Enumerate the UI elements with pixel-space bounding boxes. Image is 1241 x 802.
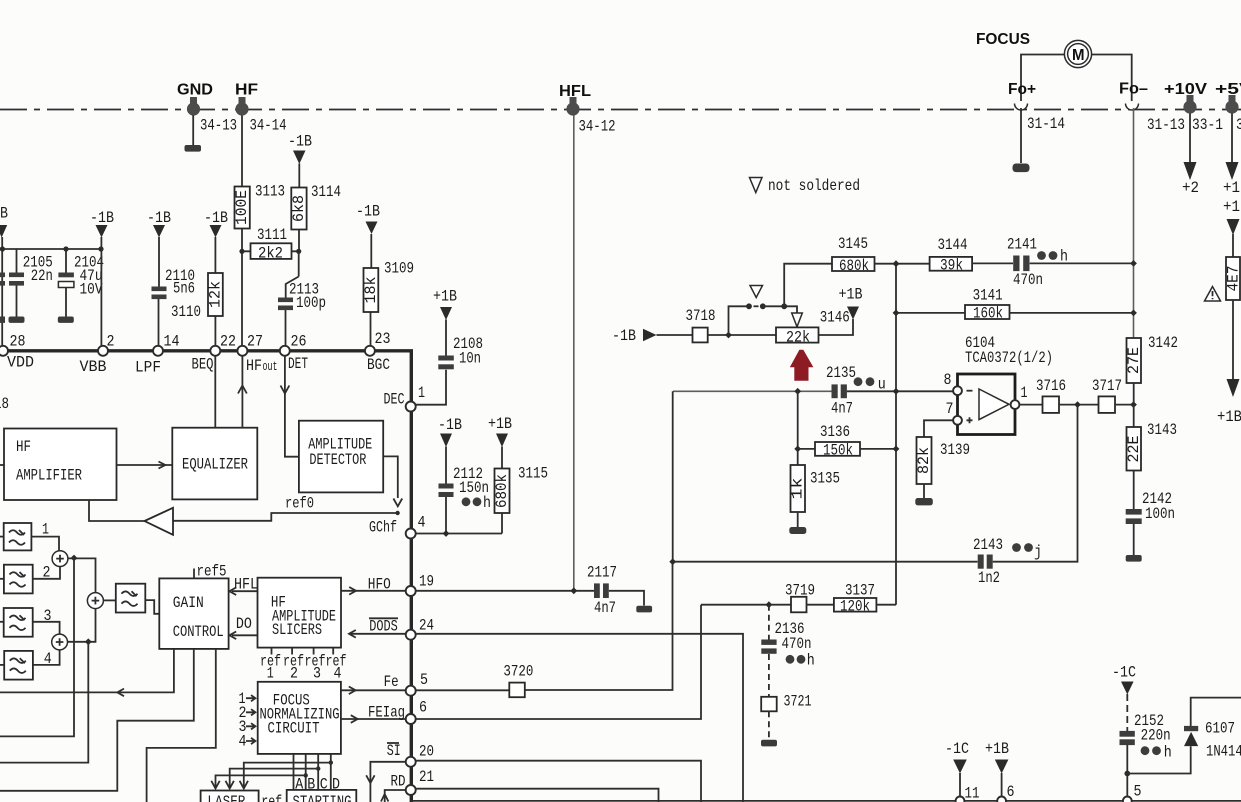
svg-text:-1B: -1B xyxy=(288,133,312,151)
wire filter4 to sum2 xyxy=(33,650,60,665)
svg-text:ref0: ref0 xyxy=(285,495,314,513)
wire HFL slicers to gain control with left arrow xyxy=(229,576,258,596)
wire filter3 to sum2 xyxy=(33,622,60,634)
wire sum1 tap staircase xyxy=(0,558,74,736)
node dot 2k2 right xyxy=(296,249,301,254)
wire 3720 to feedback node riser xyxy=(525,562,673,690)
filter block 5 xyxy=(116,584,146,613)
svg-text:5n6: 5n6 xyxy=(173,280,195,298)
svg-text:18: 18 xyxy=(0,395,9,413)
wire -1B to VBB xyxy=(100,237,102,346)
svg-text:220n: 220n xyxy=(1141,727,1171,745)
wire 160k west xyxy=(896,312,965,314)
svg-text:22n: 22n xyxy=(31,267,53,285)
junction HFL/HFO xyxy=(570,587,577,594)
wire HFout riser with up arrow xyxy=(238,356,247,428)
wire junction to 22E xyxy=(1133,405,1135,427)
svg-text:h: h xyxy=(483,494,491,512)
wire 160k east xyxy=(1010,312,1134,314)
svg-text:470n: 470n xyxy=(1013,271,1043,289)
buffer triangle xyxy=(145,508,174,535)
clipped -1B arrow at left edge xyxy=(0,205,8,238)
power -1B above 12k xyxy=(204,209,228,238)
resistor 3110 12k vertical xyxy=(207,237,225,346)
wire left edge rail xyxy=(1,237,3,346)
wire B tap to laser arrow xyxy=(211,773,308,788)
svg-text:out: out xyxy=(263,359,278,374)
svg-text:3136: 3136 xyxy=(820,423,850,441)
svg-text:10n: 10n xyxy=(459,350,481,368)
svg-text:12k: 12k xyxy=(207,281,225,308)
svg-text:20: 20 xyxy=(419,743,434,761)
svg-text:3720: 3720 xyxy=(503,663,533,681)
svg-text:3145: 3145 xyxy=(838,235,868,253)
wire op-amp output to 3716 xyxy=(1019,404,1042,406)
capacitor 2135 4n7 xyxy=(826,364,886,418)
pot wiper arrow xyxy=(792,313,803,327)
svg-text:5: 5 xyxy=(1134,783,1142,801)
connector socket Fo+ xyxy=(1015,104,1028,111)
wire 150k west xyxy=(798,448,815,450)
svg-text:STARTING: STARTING xyxy=(293,793,352,802)
wire HF AMP to EQUALIZER with arrow xyxy=(117,462,173,469)
svg-text:DO: DO xyxy=(236,615,252,633)
svg-text:1: 1 xyxy=(1021,384,1028,402)
adjustment red arrow xyxy=(790,350,814,381)
wire jumper to pot wiper and 680k xyxy=(763,306,797,313)
wire buffer output to HF AMP xyxy=(89,500,145,521)
capacitor 2142 100n xyxy=(1126,471,1175,556)
svg-text:GAIN: GAIN xyxy=(173,594,204,612)
svg-text:28: 28 xyxy=(10,333,26,351)
svg-text:LPF: LPF xyxy=(135,359,161,377)
wire D tap to laser arrow xyxy=(240,760,333,788)
wire 2143 row east riser xyxy=(993,405,1078,562)
pin 2 VBB xyxy=(80,333,115,377)
focus inputs 1-4 xyxy=(239,690,256,751)
resistor 3135 1k vertical xyxy=(789,465,841,512)
svg-text:3716: 3716 xyxy=(1036,377,1066,395)
wire 3717 to divider xyxy=(1115,404,1134,406)
svg-text:3: 3 xyxy=(1236,116,1241,134)
wire AMP DET output down with arrow xyxy=(383,456,402,506)
svg-text:470n: 470n xyxy=(782,635,812,653)
wire HFO row to 2117 xyxy=(416,590,594,592)
svg-text:3109: 3109 xyxy=(384,260,414,278)
svg-text:CONTROL: CONTROL xyxy=(173,623,224,641)
node dot left rail xyxy=(0,246,5,251)
resistor 3112? 4E7 vertical xyxy=(1225,257,1241,300)
pin 1 DEC xyxy=(384,384,426,412)
wire HFO out with right arrow xyxy=(341,575,406,594)
resistor 3109 18k vertical xyxy=(362,234,414,346)
svg-text:+1: +1 xyxy=(1223,198,1240,216)
wire filter5 to GAIN CONTROL xyxy=(145,600,159,614)
junction feedback node xyxy=(669,558,676,565)
capacitor 2152 220n xyxy=(1120,694,1172,762)
svg-text:31-14: 31-14 xyxy=(1027,115,1065,133)
wire pin21 left drop with up arrow xyxy=(381,790,406,802)
pin 24 DODS xyxy=(406,616,434,639)
svg-text:680k: 680k xyxy=(839,257,869,275)
wire 82k to ground bar xyxy=(923,484,925,498)
svg-text:3143: 3143 xyxy=(1147,421,1177,439)
svg-text:VBB: VBB xyxy=(80,358,107,376)
wire Fe out with right arrow xyxy=(341,673,406,694)
svg-text:+5V: +5V xyxy=(1215,81,1241,98)
junction output net xyxy=(1074,401,1081,408)
block FOCUS NORMALIZING CIRCUIT xyxy=(258,682,341,754)
svg-text:34-14: 34-14 xyxy=(250,117,287,135)
junction 150k/inverting xyxy=(893,446,900,453)
svg-text:DETECTOR: DETECTOR xyxy=(309,451,366,469)
termination bar 2117 xyxy=(636,606,652,613)
svg-text:VDD: VDD xyxy=(7,354,34,372)
junction Fo- / 160k net xyxy=(1130,310,1137,317)
svg-text:34-12: 34-12 xyxy=(579,118,616,136)
wire sum2 output xyxy=(68,609,96,642)
resistor 3144 39k xyxy=(930,236,973,275)
jumper 3716 xyxy=(1036,377,1066,413)
power -1B above LPF xyxy=(147,209,171,238)
resistor 3113 100E vertical xyxy=(233,116,285,347)
svg-text:DET: DET xyxy=(288,355,308,373)
svg-text:1: 1 xyxy=(418,384,425,402)
resistor 3145 680k xyxy=(832,235,875,275)
resistor 3111 2k2 horizontal xyxy=(242,226,299,263)
resistor 3142 27E vertical xyxy=(1125,334,1178,383)
resistor 3141 160k xyxy=(965,287,1010,323)
svg-text:3110: 3110 xyxy=(171,303,201,321)
svg-text:DEC: DEC xyxy=(384,391,405,409)
svg-text:2135: 2135 xyxy=(826,364,856,382)
power -1B above 2112 xyxy=(438,416,462,447)
connector +5V xyxy=(1215,81,1241,134)
connector HFL 34-12 xyxy=(559,83,616,136)
svg-text:10V: 10V xyxy=(80,281,103,299)
wire DODS row east xyxy=(416,634,743,802)
power +1B above 3115 xyxy=(488,415,512,447)
svg-text:+1B: +1B xyxy=(488,415,512,433)
wire pin20 left drop with down arrow xyxy=(366,762,406,802)
capacitor 2113 100p xyxy=(278,277,326,347)
svg-text:+1B: +1B xyxy=(839,286,863,304)
resistor 3137 120k xyxy=(834,582,877,616)
junction Fo- / 2141 net xyxy=(1130,260,1137,267)
svg-text:6: 6 xyxy=(1007,783,1015,801)
svg-text:+1B: +1B xyxy=(985,740,1009,758)
wire sum1 output xyxy=(68,558,96,592)
junction 160k/inverting net xyxy=(893,310,900,317)
wire sum2 tap staircase xyxy=(0,642,88,763)
wire feedback riser upper xyxy=(672,391,674,561)
svg-text:31-13: 31-13 xyxy=(1147,116,1185,134)
legend: not-soldered triangle symbol xyxy=(750,178,763,193)
svg-text:RD: RD xyxy=(391,773,406,791)
block GAIN CONTROL xyxy=(159,578,228,649)
wire pot right to +1B xyxy=(819,319,854,335)
arrow down +1 feed xyxy=(1226,162,1239,180)
svg-text:4n7: 4n7 xyxy=(594,599,616,617)
junction divider xyxy=(1130,401,1137,408)
jumper 3717 xyxy=(1092,377,1122,413)
wire pot-bottom riser xyxy=(797,391,799,465)
svg-text:B: B xyxy=(0,205,8,223)
node dot 2k2 left xyxy=(239,249,244,254)
wire 39k to 2141 xyxy=(972,262,1013,264)
pin 26 DET xyxy=(280,333,308,374)
svg-text:h: h xyxy=(1164,744,1172,762)
svg-text:TCA0372(1/2): TCA0372(1/2) xyxy=(965,349,1053,367)
power -1B above VBB xyxy=(90,209,114,238)
connector HF 34-14 xyxy=(235,82,287,135)
svg-text:SI: SI xyxy=(387,742,401,760)
pin 21 RD xyxy=(406,768,434,795)
power -1B above 6k8 xyxy=(288,133,312,165)
svg-text:SLICERS: SLICERS xyxy=(272,621,322,639)
svg-text:2k2: 2k2 xyxy=(258,245,283,263)
wire 680k left leg xyxy=(784,264,832,307)
svg-text:+2: +2 xyxy=(1182,179,1199,197)
capacitor 2105 22n xyxy=(9,249,53,323)
svg-text:+1: +1 xyxy=(1223,179,1240,197)
bottom IC bus xyxy=(411,800,1241,802)
junction 3719/2136 xyxy=(766,601,773,608)
svg-text:160k: 160k xyxy=(973,305,1003,323)
resistor 3139 82k vertical xyxy=(915,437,970,484)
svg-text:HFO: HFO xyxy=(368,575,391,593)
svg-text:-1B: -1B xyxy=(147,209,171,227)
svg-text:3: 3 xyxy=(313,665,321,683)
jumper 3719 xyxy=(785,582,815,613)
wire Fe row to 3720 xyxy=(416,689,510,691)
block AMPLITUDE DETECTOR xyxy=(299,421,383,493)
svg-text:1n2: 1n2 xyxy=(978,569,1000,587)
wire ref0 line xyxy=(174,513,398,521)
jumper 3721 xyxy=(761,693,811,712)
svg-text:100E: 100E xyxy=(233,190,251,225)
wire DO slicers to gain control with left arrow xyxy=(229,615,257,639)
pin 23 BGC xyxy=(365,330,391,374)
power -1B above 18k xyxy=(356,203,380,235)
wire FEIag out with right arrow xyxy=(341,704,406,723)
svg-text:-1C: -1C xyxy=(1112,664,1136,682)
capacitor 2136 470n xyxy=(761,605,815,697)
junction 680k corner dot xyxy=(781,303,787,309)
svg-text:6k8: 6k8 xyxy=(290,195,308,222)
svg-text:680k: 680k xyxy=(493,474,511,508)
capacitor 2110 5n6 xyxy=(152,237,196,346)
svg-text:2: 2 xyxy=(290,665,298,683)
svg-text:18k: 18k xyxy=(362,277,380,304)
svg-text:5: 5 xyxy=(420,671,428,689)
svg-text:2143: 2143 xyxy=(973,536,1003,554)
termination bar under Fo+ xyxy=(1013,164,1030,173)
svg-text:3111: 3111 xyxy=(257,226,287,244)
svg-text:33-1: 33-1 xyxy=(1192,116,1223,134)
svg-text:AMPLIFIER: AMPLIFIER xyxy=(16,467,82,485)
block EQUALIZER xyxy=(172,428,257,500)
wire decoupling top rail xyxy=(2,248,101,250)
svg-text:3717: 3717 xyxy=(1092,377,1122,395)
svg-text:3137: 3137 xyxy=(845,582,875,600)
pin 14 LPF xyxy=(135,333,180,377)
wire motor right to Fo- xyxy=(1092,55,1132,102)
wire 3716 to 3717 xyxy=(1059,404,1099,406)
svg-text:+1B: +1B xyxy=(1217,408,1241,426)
wire 150k east xyxy=(860,448,896,450)
junction sum2 tap xyxy=(85,638,92,645)
svg-text:23: 23 xyxy=(375,330,391,348)
diode 6107 1N4148 xyxy=(1184,720,1241,761)
svg-text:FOCUS: FOCUS xyxy=(976,31,1030,48)
jumper 3720 xyxy=(503,663,533,698)
capacitor 2143 1n2 xyxy=(973,536,1042,587)
labels ref 1 2 3 4 xyxy=(260,653,347,683)
svg-text:3721: 3721 xyxy=(784,693,812,711)
wire pin7 to 82k xyxy=(924,420,953,437)
wire gain control out A (arrowed to left edge) xyxy=(0,649,174,696)
svg-text:not soldered: not soldered xyxy=(768,177,860,195)
filter block 4 xyxy=(0,650,52,680)
wire GChf row xyxy=(416,533,502,535)
block LASER (clipped) xyxy=(201,791,259,802)
svg-text:4: 4 xyxy=(418,514,426,532)
junction sum1 tap xyxy=(71,555,78,562)
svg-text:27E: 27E xyxy=(1125,347,1143,374)
wire 4E7 down xyxy=(1232,300,1234,379)
wire filter2 to sum1 xyxy=(33,567,60,579)
termination bar 3721 xyxy=(761,740,777,747)
svg-text:GChf: GChf xyxy=(369,519,397,537)
top interconnect dash-dot bus xyxy=(0,109,1241,111)
svg-text:HFL: HFL xyxy=(559,83,591,100)
wire +1 into 4E7 xyxy=(1232,234,1234,257)
power +1B pin 6 xyxy=(985,740,1015,802)
svg-text:LASER: LASER xyxy=(207,793,245,802)
connector +10V 33-1 xyxy=(1164,81,1223,134)
svg-text:HFL: HFL xyxy=(234,576,258,594)
svg-text:39k: 39k xyxy=(940,257,963,275)
svg-text:+10V: +10V xyxy=(1164,81,1207,98)
termination bar 3139 xyxy=(915,498,933,505)
svg-text:Fo–: Fo– xyxy=(1119,81,1148,98)
pin 4 GChf xyxy=(369,514,426,539)
wire sum3 to filter5 xyxy=(103,599,115,601)
junction 2135/inverting xyxy=(893,388,900,395)
svg-text:2141: 2141 xyxy=(1007,235,1037,253)
block HF AMPLIFIER xyxy=(4,429,117,501)
svg-text:1: 1 xyxy=(267,665,274,683)
summing node 3 xyxy=(87,593,103,609)
svg-text:4: 4 xyxy=(334,665,342,683)
svg-text:ref5: ref5 xyxy=(197,563,227,581)
pin 6 FEIag xyxy=(406,699,427,725)
wire 1k to ground bar xyxy=(797,512,799,527)
capacitor 2117 4n7 xyxy=(587,564,617,618)
svg-text:21: 21 xyxy=(419,768,434,786)
svg-text:3139: 3139 xyxy=(940,441,970,459)
junction pot-bottom net xyxy=(794,388,801,395)
jumper 3719 row xyxy=(701,604,791,606)
wire 2143 row west xyxy=(673,561,978,563)
wire GND stub down xyxy=(192,115,194,146)
capacitor 2108 10n xyxy=(416,320,484,405)
input -1B west xyxy=(612,327,657,345)
filter block 3 xyxy=(0,607,52,637)
not-soldered jumper gap dots xyxy=(746,303,766,309)
junction inverting net top xyxy=(893,260,900,267)
svg-text:100n: 100n xyxy=(1145,505,1175,523)
junction jumper tap xyxy=(725,332,732,339)
wire pin20 row east drop xyxy=(416,761,701,802)
resistor 3136 150k xyxy=(815,423,860,460)
block HF AMPLITUDE SLICERS xyxy=(258,578,342,648)
wire 3719 to 120k xyxy=(807,604,834,606)
pin 5 bottom xyxy=(1123,783,1142,802)
wire Fo- line down xyxy=(1133,108,1135,338)
svg-text:-1B: -1B xyxy=(90,209,114,227)
node dot 2104 top xyxy=(63,246,68,251)
svg-text:22k: 22k xyxy=(786,329,810,347)
svg-text:1k: 1k xyxy=(789,478,807,500)
svg-text:Fe: Fe xyxy=(384,673,399,691)
arrow down +2 feed xyxy=(1184,162,1197,180)
svg-text:3135: 3135 xyxy=(810,470,840,488)
pin 20 SI xyxy=(406,743,434,767)
resistor 3115 680k vertical xyxy=(493,447,548,534)
wire 3718 to pot xyxy=(708,334,776,336)
svg-text:26: 26 xyxy=(291,333,307,351)
svg-text:EQUALIZER: EQUALIZER xyxy=(182,456,248,474)
wire DODS into slicers with left arrow xyxy=(349,630,406,638)
svg-text:3115: 3115 xyxy=(518,465,548,483)
svg-text:HF: HF xyxy=(16,438,31,456)
svg-text:19: 19 xyxy=(419,573,434,591)
not-soldered marker triangle xyxy=(750,286,763,298)
svg-text:BEQ: BEQ xyxy=(192,356,214,374)
svg-text:-1B: -1B xyxy=(438,416,462,434)
svg-text:-1B: -1B xyxy=(612,327,636,345)
svg-text:82k: 82k xyxy=(915,447,933,474)
wire gain control out B staircase xyxy=(0,649,194,791)
svg-text:3144: 3144 xyxy=(938,236,968,254)
resistor 3143 22E vertical xyxy=(1125,421,1177,471)
IC pin bus (thick) xyxy=(0,351,411,802)
svg-text:34-13: 34-13 xyxy=(200,117,237,135)
svg-text:7: 7 xyxy=(946,400,954,418)
svg-text:100p: 100p xyxy=(296,294,326,312)
wire 2117 to termination xyxy=(609,591,644,606)
arrow down +1B end xyxy=(1227,379,1240,397)
junction 2112/GChf xyxy=(443,530,450,537)
svg-text:3141: 3141 xyxy=(973,287,1003,305)
feedback wire row y391 xyxy=(673,390,832,392)
svg-text:4E7: 4E7 xyxy=(1225,266,1241,292)
summing node 1 xyxy=(52,551,68,567)
connector socket Fo- xyxy=(1126,104,1139,111)
pin 5 Fe xyxy=(406,671,428,696)
node dot VBB rail xyxy=(98,246,103,251)
svg-text:22: 22 xyxy=(220,333,236,351)
slicers ref stubs xyxy=(272,648,334,655)
svg-text:CIRCUIT: CIRCUIT xyxy=(268,720,320,738)
wire +5V drop xyxy=(1231,114,1233,163)
svg-text:-1C: -1C xyxy=(945,740,969,758)
svg-text:2: 2 xyxy=(107,333,115,351)
svg-text:Fo+: Fo+ xyxy=(1008,81,1036,98)
wire gain control out C staircase xyxy=(147,649,216,802)
